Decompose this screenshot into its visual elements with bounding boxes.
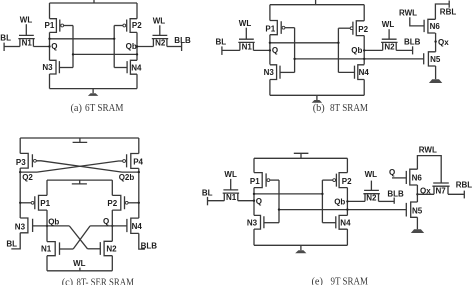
svg-text:9T SRAM: 9T SRAM: [331, 277, 369, 285]
svg-text:N3: N3: [42, 63, 53, 72]
svg-text:N2: N2: [366, 194, 377, 203]
wire right rail mid: [363, 36, 365, 65]
wire left rail lower: [253, 229, 255, 245]
svg-text:P2: P2: [107, 199, 117, 208]
svg-text:8T- SER SRAM: 8T- SER SRAM: [77, 277, 135, 285]
wire Q cross line: [254, 193, 322, 195]
svg-text:WL: WL: [153, 16, 166, 25]
svg-text:N2: N2: [155, 39, 166, 48]
VDD stub: [93, 0, 95, 3]
transistor P2: [353, 21, 364, 36]
svg-text:N7: N7: [436, 186, 447, 195]
svg-text:P1: P1: [265, 25, 275, 34]
transistor N1: [238, 39, 254, 50]
wire Qb to N2: [347, 200, 365, 202]
ground: [316, 95, 318, 100]
wire inner left upper: [46, 180, 48, 195]
transistor N4: [355, 65, 365, 80]
node Qb junction on gate vertical: [293, 58, 295, 60]
wire P2 gate lead: [114, 25, 123, 27]
transistor N2: [381, 39, 397, 50]
node Q junction on left rail: [253, 193, 255, 195]
node P1 gate junction: [19, 202, 21, 204]
svg-text:BL: BL: [0, 33, 11, 42]
wire top VDD rail: [50, 2, 138, 4]
wire BL drop: [11, 233, 20, 249]
node Qb-N2 junction: [363, 49, 365, 51]
wire left rail upper: [49, 3, 51, 19]
svg-text:N4: N4: [340, 218, 351, 227]
svg-text:Q2: Q2: [22, 173, 33, 182]
wire top VDD rail: [20, 137, 139, 139]
wire N1 to Q: [253, 49, 270, 51]
wire N3 gate lead: [280, 71, 295, 73]
wire right rail lower: [136, 74, 138, 88]
ground: [300, 245, 302, 250]
wire P1 gate lead: [270, 179, 279, 181]
wire Q line to N4 gate: [90, 225, 127, 227]
transistor N4: [127, 218, 139, 233]
wire left rail upper: [269, 5, 271, 21]
transistor N6: [424, 19, 435, 33]
svg-text:N5: N5: [430, 55, 441, 64]
svg-text:Q: Q: [272, 46, 278, 55]
svg-text:Qx: Qx: [438, 38, 449, 47]
node Q2b junction: [138, 171, 140, 173]
wire N4 gate lead: [322, 222, 335, 224]
svg-text:N1: N1: [226, 193, 237, 202]
wire P2-N4 gate vertical: [321, 180, 323, 223]
svg-text:RWL: RWL: [419, 146, 437, 155]
transistor N2: [100, 241, 112, 255]
inner VDD supply T symbol: [72, 180, 87, 184]
wire left outer rail mid: [19, 168, 21, 218]
transistor P1: [270, 21, 281, 35]
svg-text:N3: N3: [247, 218, 258, 227]
svg-text:P1: P1: [250, 177, 260, 186]
svg-text:BLB: BLB: [141, 241, 158, 250]
svg-text:P2: P2: [358, 25, 368, 34]
wire Qb line extended to read port: [295, 58, 424, 60]
svg-text:N6: N6: [412, 174, 423, 183]
node Qb junction: [46, 225, 48, 227]
svg-text:(e): (e): [312, 277, 323, 285]
svg-text:Q: Q: [389, 168, 395, 177]
node Q junction on left rail: [48, 38, 50, 40]
wire P1-N3 gate vertical: [278, 180, 280, 223]
node P2 gate junction: [138, 202, 140, 204]
RBL terminal tick: [448, 1, 450, 8]
wire bottom rail: [254, 244, 347, 246]
wire P1 gate lead: [63, 25, 73, 27]
svg-text:N4: N4: [131, 63, 142, 72]
wire BLB drop: [139, 233, 145, 249]
wire N2 to BLB: [396, 49, 412, 51]
transistor N3: [50, 60, 60, 74]
transistor N3: [254, 215, 264, 229]
wire left outer rail upper: [19, 138, 21, 153]
svg-text:WL: WL: [20, 15, 33, 24]
transistor N2: [152, 35, 168, 46]
svg-text:BL: BL: [6, 240, 17, 249]
wire RWL drop: [410, 17, 424, 26]
wire P2 gate lead: [128, 202, 139, 204]
svg-text:Qb: Qb: [351, 46, 362, 55]
VDD supply T symbol: [294, 153, 309, 158]
wire right rail lower: [363, 80, 365, 96]
svg-text:N4: N4: [359, 68, 370, 77]
svg-text:6T SRAM: 6T SRAM: [85, 103, 124, 114]
svg-text:N1: N1: [22, 39, 33, 48]
transistor N4: [127, 60, 137, 74]
BL terminal tick: [221, 46, 223, 55]
svg-text:P1: P1: [45, 21, 55, 30]
transistor N6: [406, 169, 417, 185]
svg-text:P3: P3: [16, 158, 26, 167]
wire inner left mid: [46, 210, 48, 242]
node N1-Q junction: [269, 49, 271, 51]
svg-text:8T SRAM: 8T SRAM: [330, 103, 368, 114]
wire right rail lower: [346, 229, 348, 245]
svg-text:BL: BL: [216, 38, 227, 47]
wire N2 to BLB: [379, 200, 395, 202]
wire right rail upper: [136, 3, 138, 19]
node Q junction: [111, 225, 113, 227]
node Q junction on left rail: [269, 42, 271, 44]
svg-text:WL: WL: [382, 20, 395, 29]
transistor N7: [432, 183, 449, 194]
BLB terminal tick: [181, 43, 183, 51]
node Q junction on gate vertical: [337, 42, 339, 44]
VDD stub: [315, 0, 317, 5]
wire top VDD rail: [270, 4, 364, 6]
svg-text:WL: WL: [365, 170, 378, 179]
wire bottom rail: [270, 94, 364, 96]
wire Q cross line: [270, 42, 339, 44]
svg-text:BL: BL: [202, 188, 213, 197]
wire P3 gate to Q2b (diagonal): [36, 161, 122, 172]
transistor P4: [127, 154, 139, 169]
wire right outer rail mid: [138, 168, 140, 218]
RBL terminal tick: [463, 191, 465, 199]
svg-text:RBL: RBL: [456, 180, 473, 189]
transistor N2: [363, 190, 379, 201]
transistor P1: [50, 19, 60, 33]
wire inner right upper: [111, 180, 113, 195]
wire BL lead: [208, 200, 225, 202]
ground (read port): [429, 79, 442, 83]
transistor N1: [223, 190, 239, 201]
svg-text:(b): (b): [313, 103, 325, 114]
svg-text:Q2b: Q2b: [119, 173, 135, 182]
wire N1 gate lead: [230, 179, 232, 190]
wire P2-N4 gate vertical: [113, 26, 115, 68]
svg-text:N3: N3: [264, 68, 275, 77]
svg-text:P2: P2: [132, 21, 142, 30]
BLB terminal tick: [412, 46, 414, 54]
wire P1-N3 gate vertical: [294, 28, 296, 73]
svg-text:WL: WL: [73, 259, 86, 268]
wire Qb to N2: [364, 49, 383, 51]
node Qx: [434, 40, 436, 42]
wire left rail mid: [269, 35, 271, 65]
VDD supply T symbol: [73, 138, 88, 142]
wire Q cross line: [50, 38, 115, 40]
wire left rail lower: [269, 80, 271, 96]
wire P1 gate lead: [285, 27, 295, 29]
wire N2 gate lead: [388, 29, 390, 39]
wire Qb to N2: [137, 46, 153, 48]
svg-text:WL: WL: [239, 19, 252, 28]
svg-text:N6: N6: [430, 22, 441, 31]
svg-text:BLB: BLB: [387, 190, 404, 199]
svg-text:N5: N5: [412, 207, 423, 216]
wire Qb line extended to read port: [279, 209, 406, 211]
svg-text:WL: WL: [224, 170, 237, 179]
BL terminal tick: [3, 43, 5, 51]
wire N1 gate lead: [25, 24, 27, 35]
wire inner right lower: [111, 256, 113, 271]
wire left rail mid: [253, 188, 255, 216]
svg-text:Q: Q: [256, 197, 262, 206]
wire N2 gate lead: [88, 248, 101, 250]
transistor P3: [20, 153, 32, 168]
node N1-Q junction: [48, 45, 50, 47]
node Qb junction on gate vertical: [72, 53, 74, 55]
svg-text:Q: Q: [51, 42, 57, 51]
svg-text:N3: N3: [15, 222, 26, 231]
wire N4 gate lead: [338, 71, 354, 73]
transistor P1: [35, 195, 47, 210]
wire Qx vertical: [435, 33, 437, 52]
wire left rail lower: [49, 74, 51, 89]
transistor N3: [20, 218, 32, 233]
wire N2 to BLB: [167, 46, 182, 48]
wire bottom WL rail: [47, 270, 112, 272]
svg-text:Qb: Qb: [334, 198, 345, 207]
ground (read port): [411, 229, 424, 233]
ground: [92, 89, 94, 94]
transistor N1: [18, 35, 34, 46]
svg-text:(c): (c): [62, 277, 73, 285]
wire RWL loop: [417, 156, 441, 183]
svg-text:N1: N1: [41, 245, 52, 254]
wire P1-N3 gate vertical: [72, 26, 74, 68]
transistor N1: [47, 242, 60, 256]
wire inner VDD rail: [47, 179, 112, 181]
wire right rail mid: [346, 188, 348, 216]
node Q2 junction: [19, 171, 21, 173]
transistor P2: [127, 19, 137, 33]
wire Qx vertical: [416, 185, 418, 202]
wire inner right mid: [111, 210, 113, 241]
wire N1 to Q: [238, 200, 254, 202]
svg-text:Qb: Qb: [126, 42, 137, 51]
transistor P1: [254, 173, 266, 188]
svg-text:N2: N2: [106, 245, 117, 254]
node Qb junction on right rail: [346, 208, 348, 210]
node Qb-N2 junction: [346, 200, 348, 202]
node N1-Q junction: [253, 200, 255, 202]
svg-text:(a): (a): [71, 103, 82, 114]
wire left rail upper: [253, 158, 255, 172]
svg-text:P4: P4: [133, 158, 143, 167]
svg-text:RWL: RWL: [399, 9, 417, 18]
svg-text:Q: Q: [103, 217, 109, 226]
transistor N4: [336, 215, 348, 229]
wire N1 gate lead: [60, 248, 74, 250]
wire right outer rail upper: [138, 138, 140, 154]
wire Qb to N2 gate (diagonal): [69, 226, 87, 249]
transistor N3: [270, 65, 280, 80]
BL terminal tick: [207, 197, 209, 205]
wire N4 gate lead: [114, 67, 127, 69]
wire N5 source to ground: [435, 66, 437, 79]
svg-text:N4: N4: [132, 222, 143, 231]
node Qb junction on gate vertical: [278, 208, 280, 210]
node Q junction on gate vertical: [113, 38, 115, 40]
wire P2 gate lead: [338, 27, 350, 29]
wire left rail mid: [49, 32, 51, 60]
wire BL lead: [222, 49, 240, 51]
transistor P2: [112, 195, 124, 210]
node Qb junction on right rail: [136, 53, 138, 55]
node Qb-N2 junction: [136, 45, 138, 47]
wire Qb line to N3 gate: [33, 225, 70, 227]
wire Q2b stub: [122, 171, 139, 173]
svg-text:P1: P1: [40, 199, 50, 208]
transistor N5: [424, 52, 436, 66]
BLB terminal tick: [393, 198, 395, 204]
node Qb junction on right rail: [363, 58, 365, 60]
wire N7 to RBL: [448, 193, 464, 195]
node Qx: [416, 193, 418, 195]
wire N2 gate lead: [370, 181, 372, 191]
transistor P2: [336, 173, 347, 188]
wire Q2 stub: [20, 171, 37, 173]
node Q junction on gate vertical: [321, 193, 323, 195]
svg-text:BLB: BLB: [174, 36, 191, 45]
wire right rail mid: [136, 32, 138, 60]
wire top VDD rail: [254, 157, 347, 159]
wire bottom rail: [50, 88, 138, 90]
wire Qx to N7: [417, 193, 434, 195]
transistor N5: [406, 202, 417, 217]
wire N1 to Q: [33, 46, 49, 48]
wire right rail upper: [363, 5, 365, 21]
wire N3 gate lead: [264, 222, 279, 224]
svg-text:P2: P2: [342, 177, 352, 186]
wire BL lead: [4, 46, 20, 48]
wire right rail upper: [346, 158, 348, 172]
wire N1 gate lead: [245, 28, 247, 40]
wire P2 gate lead: [322, 179, 332, 181]
wire Q gate lead: [392, 177, 406, 179]
wire P1 gate lead: [20, 202, 31, 204]
wire N6 drain to RBL: [435, 4, 449, 19]
wire N3 gate lead: [59, 67, 73, 69]
WL terminal stub: [79, 268, 81, 271]
svg-text:N1: N1: [242, 42, 253, 51]
wire N5 source to ground: [416, 217, 418, 229]
wire Qb cross line: [73, 53, 137, 55]
wire N2 gate lead: [159, 25, 161, 35]
wire Q to N1 gate (diagonal): [73, 226, 90, 249]
svg-text:BLB: BLB: [404, 38, 421, 47]
svg-text:N2: N2: [384, 42, 395, 51]
wire inner left lower: [46, 256, 48, 271]
wire P2-N4 gate vertical: [337, 28, 339, 72]
wire P4 gate to Q2 (diagonal): [37, 161, 123, 172]
svg-text:Qb: Qb: [48, 218, 59, 227]
svg-text:RBL: RBL: [440, 7, 457, 16]
